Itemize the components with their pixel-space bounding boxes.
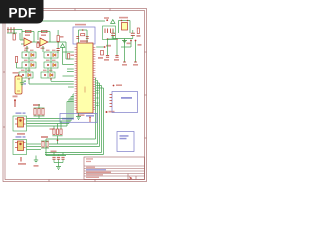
wire aux branch right	[121, 40, 142, 62]
resistor group RN3	[50, 121, 63, 144]
page background	[0, 0, 149, 198]
diode-trimmer cell col1 row3	[19, 70, 33, 78]
capacitor group C14-C16	[46, 139, 66, 167]
capacitor C12	[111, 30, 115, 39]
capacitor C4 interstage	[37, 43, 39, 48]
wire filter grid verticals	[26, 46, 51, 72]
wire filter outputs to IC	[28, 78, 74, 84]
title block frame	[84, 157, 145, 180]
resistor R6	[68, 54, 74, 60]
wire bus IC right	[45, 78, 104, 155]
battery B1	[15, 74, 26, 94]
filter block right of rail	[103, 26, 116, 40]
wire oscillator	[79, 29, 88, 43]
capacitor C5	[57, 42, 60, 53]
resistor group RN2	[41, 136, 49, 148]
title block row1 text	[86, 167, 95, 168]
diode-trimmer cell col1 row2	[22, 60, 36, 68]
title block sheet text	[86, 177, 132, 180]
LED D2	[13, 96, 18, 108]
capacitor C11	[114, 55, 119, 60]
diode D5	[137, 28, 141, 37]
crystal Q1	[75, 24, 86, 36]
label IC2B	[41, 34, 46, 36]
reset component	[89, 117, 91, 123]
voltage regulator IC3	[119, 17, 128, 30]
schematic sheet frame	[3, 9, 147, 182]
svg-text:PDF: PDF	[9, 5, 37, 20]
label above power box	[113, 84, 122, 86]
label below IC1	[78, 114, 85, 116]
ground bottom caps	[56, 167, 61, 170]
module power connector	[110, 92, 138, 113]
PDF badge	[0, 0, 44, 24]
title block link	[86, 169, 106, 170]
annotation box mcu	[60, 114, 97, 123]
wire regulator branch	[119, 20, 131, 33]
wire IC right upper	[96, 45, 111, 48]
wire feedback loop 1	[22, 32, 34, 43]
wire op-amp2 output	[48, 41, 66, 43]
resistor R1	[13, 30, 15, 41]
annotation box note	[117, 132, 134, 152]
label inside IC1	[84, 87, 86, 93]
op-amp IC2A	[24, 38, 32, 46]
diode-trimmer cell col1 row1	[22, 50, 36, 58]
resistor R3	[13, 57, 23, 74]
wire bus IC left	[27, 42, 74, 126]
label below MIC1	[17, 133, 25, 135]
diode-trimmer cell col2 row1	[44, 50, 58, 58]
capacitor C9	[86, 37, 89, 39]
supply arrow VCC top	[111, 20, 115, 24]
resistor group RN1	[33, 104, 45, 119]
label serial blue	[86, 115, 94, 117]
pin header right bottom	[122, 62, 138, 66]
title block cat text	[86, 158, 93, 162]
supply arrow IC left	[60, 44, 73, 52]
IC1 body	[77, 43, 93, 113]
resistor R4 feedback	[42, 30, 48, 32]
label IC2A	[25, 34, 30, 36]
pin below MIC2	[18, 157, 26, 165]
diode-trimmer cell col2 row2	[44, 60, 58, 68]
resistor R2 feedback	[26, 30, 32, 32]
resistor R5 pullup	[57, 30, 64, 42]
ground below IC	[76, 113, 81, 120]
wire feedback loop 2	[38, 32, 50, 43]
ground filter left	[20, 78, 24, 86]
microphone MIC1	[13, 112, 27, 131]
title block date text	[86, 174, 103, 175]
capacitor C10	[104, 55, 109, 60]
annotation box oscillator	[73, 27, 95, 44]
diode-trimmer cell col2 row3	[41, 70, 55, 78]
ground mid-left	[34, 156, 39, 167]
capacitor C8	[76, 37, 79, 39]
transistor Q2	[98, 51, 104, 59]
op-amp IC2B	[40, 38, 48, 46]
capacitor C13	[131, 30, 135, 39]
microphone MIC2	[13, 136, 27, 154]
wire VCC top rail	[8, 20, 105, 22]
junction top rail	[104, 17, 109, 21]
wire twin branch	[107, 35, 118, 56]
op-amp2 power stub	[41, 46, 45, 49]
wire op-amp1 inputs	[20, 30, 24, 45]
connector J1 input pins	[7, 27, 22, 33]
junction IC bottom right	[106, 111, 115, 113]
op-amp1 power stub	[25, 46, 29, 49]
title block title text	[86, 172, 111, 173]
label IC1	[80, 40, 88, 42]
ground regulator	[113, 39, 133, 44]
wire mic outputs	[27, 144, 42, 150]
IC1 pins	[75, 48, 96, 110]
wire stage1 to stage2	[32, 41, 40, 43]
